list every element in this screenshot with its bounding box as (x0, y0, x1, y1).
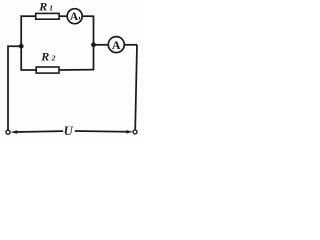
svg-text:U: U (64, 124, 74, 138)
arrow right (126, 130, 132, 134)
wire R1 to A1 (59, 15, 67, 17)
ammeter A2 (108, 37, 124, 53)
wire bottom right segment (75, 130, 127, 133)
ammeter A1 (67, 9, 82, 24)
resistor R2 (36, 67, 59, 73)
wire left rail (8, 46, 21, 130)
wire right inner vertical (93, 16, 95, 70)
wire top branch left (21, 15, 36, 17)
terminal bottom-left (6, 130, 10, 134)
svg-text:A: A (112, 38, 121, 52)
wire R2 to right (59, 69, 94, 71)
wire A2 to right corner (124, 44, 137, 46)
wire A1 to right corner (82, 15, 93, 17)
wire R2 branch left (21, 69, 37, 71)
wire bottom left segment (17, 130, 64, 133)
svg-text:R: R (38, 0, 47, 14)
wire main left vertical (20, 16, 22, 71)
node junction right (91, 42, 96, 47)
svg-text:A: A (70, 11, 79, 23)
svg-text:2: 2 (51, 53, 56, 62)
node junction left (19, 44, 24, 49)
svg-text:R: R (40, 49, 49, 63)
wire right outer vertical (135, 45, 137, 130)
arrow left (11, 130, 18, 134)
label A1 subscript tick (79, 17, 80, 20)
svg-text:1: 1 (49, 4, 53, 13)
terminal bottom-right (133, 130, 137, 134)
wire middle to A2 (94, 44, 109, 46)
resistor R1 (36, 13, 59, 19)
